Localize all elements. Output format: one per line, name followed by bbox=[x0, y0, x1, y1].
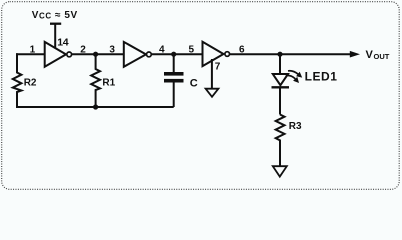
svg-text:LED1: LED1 bbox=[305, 70, 338, 84]
LED emission arrows bbox=[286, 71, 302, 83]
junction R1 bottom bbox=[93, 104, 98, 109]
svg-text:C: C bbox=[190, 77, 198, 89]
svg-text:3: 3 bbox=[109, 44, 115, 55]
svg-text:5: 5 bbox=[189, 44, 195, 55]
Vout arrowhead bbox=[350, 51, 360, 58]
pin 7 stub bbox=[211, 59, 213, 89]
wire node1 input bbox=[16, 53, 46, 55]
svg-text:R1: R1 bbox=[102, 78, 115, 89]
LED1 bbox=[272, 54, 290, 87]
junction node 2 bbox=[93, 52, 98, 57]
bottom feedback wire bbox=[16, 106, 174, 108]
svg-text:VCC ≈ 5V: VCC ≈ 5V bbox=[32, 10, 78, 21]
wire node2 bbox=[72, 53, 125, 55]
label Vcc = 5V bbox=[32, 10, 78, 21]
resistor R1 bbox=[91, 55, 100, 107]
inverter U1A bbox=[45, 42, 72, 67]
junction node 6 bbox=[277, 52, 282, 57]
ground under pin 7 bbox=[206, 89, 219, 97]
capacitor C bbox=[164, 55, 184, 107]
svg-text:V: V bbox=[366, 49, 374, 61]
junction node 4 bbox=[171, 52, 176, 57]
inverter U1B bbox=[124, 42, 152, 67]
Vcc power bar bbox=[50, 24, 61, 49]
svg-text:R3: R3 bbox=[289, 121, 302, 132]
output wire to Vout bbox=[230, 53, 352, 55]
dotted rounded frame bbox=[2, 2, 400, 190]
ground under R3 bbox=[273, 166, 287, 176]
resistor R2 bbox=[13, 53, 22, 107]
svg-text:7: 7 bbox=[215, 62, 221, 73]
svg-text:14: 14 bbox=[57, 37, 69, 49]
resistor R3 bbox=[276, 87, 285, 166]
wire node4-5 bbox=[151, 53, 203, 55]
svg-text:R2: R2 bbox=[24, 78, 37, 89]
inverter U1C bbox=[203, 42, 230, 66]
svg-text:OUT: OUT bbox=[374, 52, 390, 61]
